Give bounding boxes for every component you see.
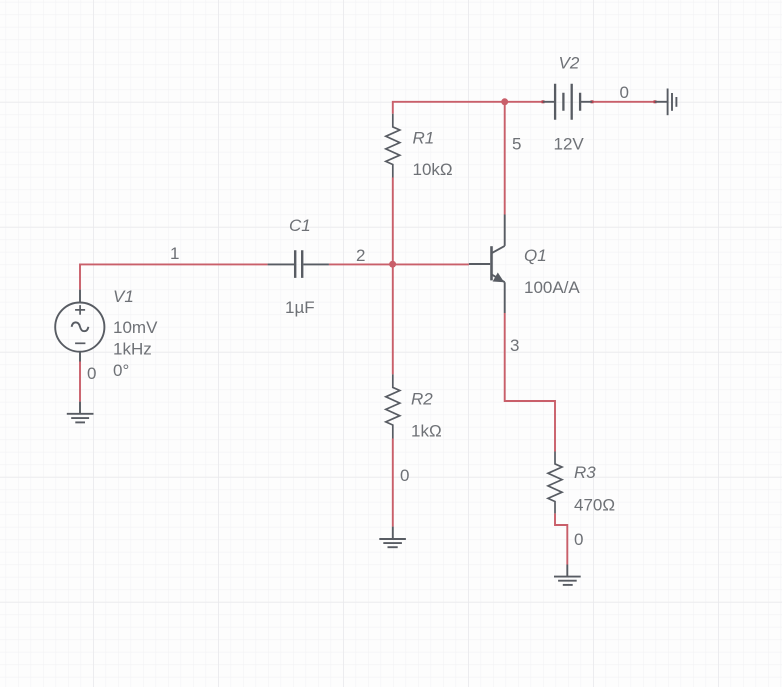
svg-text:5: 5 [512,135,521,154]
svg-text:1: 1 [170,244,179,263]
wire net2 C1 right to node 2 to Q1 base [329,263,469,265]
svg-text:R1: R1 [413,129,435,148]
svg-text:R2: R2 [411,390,433,409]
svg-text:0: 0 [87,364,96,383]
capacitor C1 [268,250,329,278]
svg-text:0: 0 [574,530,583,549]
wire net1 V1 to C1 [80,264,268,289]
wire net0 V1 bottom to ground [79,362,81,402]
wire net0 R2 bottom to ground [392,439,394,527]
svg-text:2: 2 [356,246,365,265]
resistor R3 [548,452,562,514]
wire net3 Q1 emitter to R3 top [505,313,555,452]
ground right of V2 (rotated) [655,89,676,116]
wire net5 collector drop from top rail to Q1 collector [504,102,506,215]
svg-text:1kΩ: 1kΩ [411,422,442,441]
wire net2 node 2 to R1 bottom [392,178,394,265]
svg-text:1kHz: 1kHz [113,340,152,359]
svg-text:3: 3 [510,336,519,355]
pin V2 positive (wire endpoint) [542,100,545,103]
node 2 junction dot [389,261,396,268]
svg-text:C1: C1 [289,216,311,235]
svg-text:0°: 0° [113,361,129,380]
wire net5 top rail from R1 top to battery V2 left pin [393,102,543,114]
wire net0 R3 bottom to ground [555,513,567,564]
wire net2 node 2 to R2 top [392,264,394,374]
resistor R2 [386,374,400,438]
svg-text:10mV: 10mV [113,318,158,337]
svg-text:10kΩ: 10kΩ [413,160,453,179]
svg-text:V2: V2 [559,54,580,73]
wire net0 battery right to ground [592,101,655,103]
battery V2 [543,84,592,120]
node 5 junction dot [501,98,508,105]
resistor R1 [386,114,400,178]
svg-text:1µF: 1µF [285,298,315,317]
svg-text:100A/A: 100A/A [524,278,580,297]
AC source V1 [55,290,104,362]
svg-text:470Ω: 470Ω [574,496,615,515]
svg-text:0: 0 [400,466,409,485]
ground below R3 [554,565,581,585]
pin V2 negative (wire endpoint) [591,100,594,103]
ground below V1 [67,402,94,423]
svg-text:0: 0 [620,83,629,102]
svg-text:R3: R3 [574,463,596,482]
transistor Q1 [469,215,505,314]
ground below R2 [379,527,406,548]
pin ground right (wire endpoint) [654,100,657,103]
svg-text:12V: 12V [554,135,585,154]
svg-text:V1: V1 [113,287,134,306]
svg-text:Q1: Q1 [524,246,547,265]
